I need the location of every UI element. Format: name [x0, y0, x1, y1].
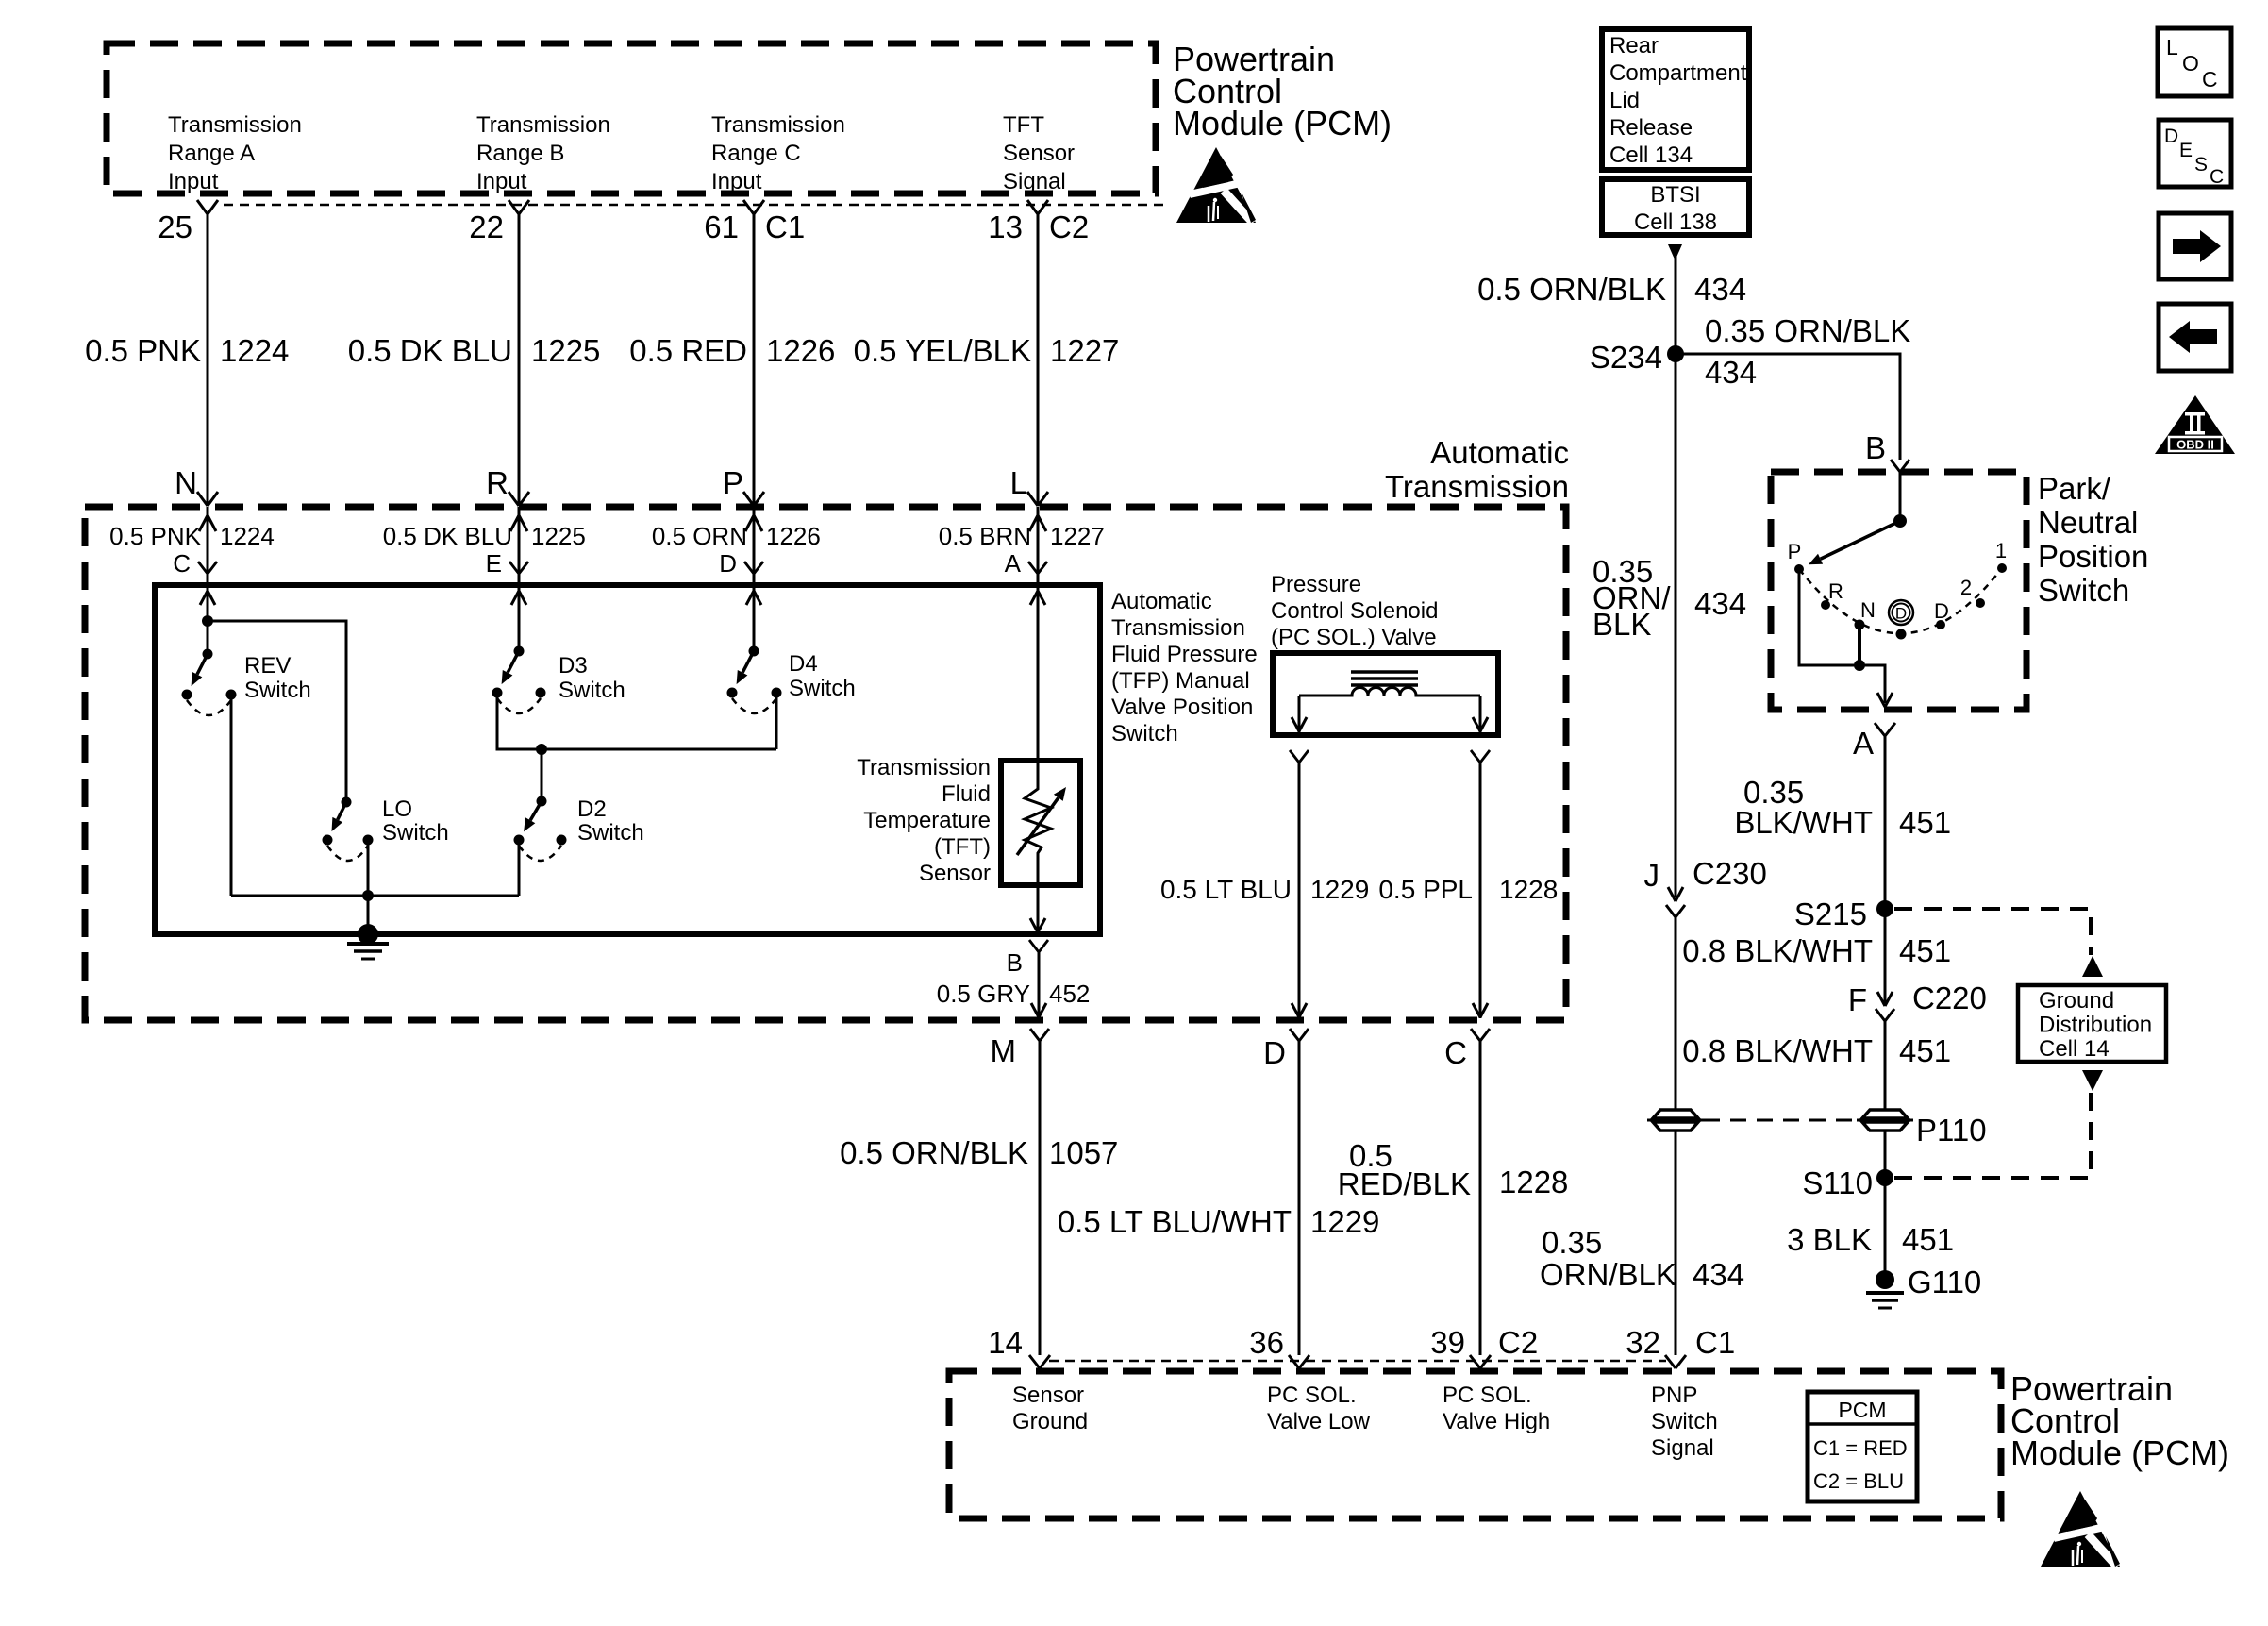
svg-text:14: 14 [988, 1325, 1023, 1360]
wire 434 0.35 ORN/BLK branch to PNP switch [1676, 354, 1900, 460]
svg-text:Ground: Ground [1012, 1409, 1088, 1434]
internal wire arrow at x=799 [746, 591, 754, 605]
svg-text:1229: 1229 [1310, 1204, 1379, 1239]
dashed link Ground Distribution to S110 [2082, 1070, 2103, 1091]
wire N contact down [1858, 625, 1861, 665]
svg-text:S215: S215 [1794, 897, 1867, 931]
svg-text:1226: 1226 [766, 522, 821, 550]
svg-text:1228: 1228 [1499, 875, 1558, 904]
wire 1224 0.5 PNK [207, 214, 209, 506]
wire 1227 0.5 YEL/BLK [1037, 214, 1040, 506]
wire to pin 32 [1675, 1131, 1677, 1355]
svg-text:G110: G110 [1908, 1265, 1981, 1299]
component BTSI box [1602, 179, 1749, 235]
svg-text:B: B [1007, 948, 1023, 977]
svg-text:O: O [2182, 51, 2199, 75]
svg-text:22: 22 [469, 210, 504, 244]
svg-text:Signal: Signal [1003, 169, 1066, 194]
svg-text:0.5 ORN/BLK: 0.5 ORN/BLK [1477, 272, 1666, 307]
svg-text:3 BLK: 3 BLK [1787, 1222, 1872, 1257]
svg-text:1229: 1229 [1310, 875, 1369, 904]
svg-text:452: 452 [1049, 980, 1090, 1008]
svg-text:434: 434 [1694, 586, 1746, 621]
TFT variable arrow [1017, 797, 1059, 855]
svg-text:(TFT): (TFT) [934, 834, 991, 860]
svg-text:D: D [2164, 126, 2178, 147]
wire D2 left contact down [518, 840, 521, 896]
icon arrow right box [2159, 213, 2231, 279]
svg-text:1057: 1057 [1049, 1135, 1118, 1170]
contact 1 [1997, 563, 2007, 573]
svg-text:0.8 BLK/WHT: 0.8 BLK/WHT [1682, 1033, 1873, 1068]
ground internal TFP switch [358, 924, 378, 945]
svg-text:A: A [1853, 726, 1874, 761]
internal wire arrow at x=550 [511, 591, 519, 605]
svg-text:1227: 1227 [1050, 522, 1105, 550]
svg-text:Switch: Switch [244, 678, 311, 703]
contact D [1936, 620, 1945, 629]
terminal M [1030, 1029, 1040, 1041]
svg-text:0.5 GRY: 0.5 GRY [937, 980, 1030, 1008]
wire 1057 0.5 ORN/BLK [1039, 1041, 1042, 1355]
wire 1228 0.5 RED/BLK [1479, 1041, 1482, 1355]
component TFT sensor box [1001, 761, 1080, 885]
wire E to D3 switch [518, 585, 521, 651]
svg-text:Range C: Range C [711, 141, 801, 166]
svg-text:C2: C2 [1049, 210, 1089, 244]
terminal C below transmission [1471, 1029, 1480, 1041]
wire entry arrow at x=550 [518, 507, 521, 585]
svg-text:P110: P110 [1916, 1113, 1987, 1148]
wire REV right contact down [230, 695, 233, 896]
svg-text:451: 451 [1899, 933, 1951, 968]
svg-text:Switch: Switch [577, 820, 644, 846]
node S110 [1876, 1169, 1893, 1186]
wire 1229 0.5 LT BLU [1298, 763, 1301, 1018]
svg-text:Signal: Signal [1651, 1435, 1714, 1461]
ESD sensitive device symbol bottom [2041, 1491, 2120, 1567]
svg-text:Automatic: Automatic [1430, 435, 1569, 470]
svg-text:Cell 14: Cell 14 [2039, 1036, 2110, 1062]
wire entry arrow at x=1100 [1037, 507, 1040, 585]
pin 61 connector C1 [743, 200, 754, 214]
svg-text:E: E [486, 549, 502, 578]
svg-text:D4: D4 [789, 651, 818, 677]
pin 39 connector C2 [1470, 1355, 1480, 1368]
pin 25 connector [197, 200, 208, 214]
wire LO right contact down [367, 840, 370, 934]
svg-text:Sensor: Sensor [1012, 1383, 1084, 1408]
svg-text:S: S [2194, 154, 2208, 176]
svg-text:2: 2 [1960, 576, 1972, 599]
svg-text:LO: LO [382, 796, 412, 822]
wire bottom bus to ground [231, 895, 519, 897]
svg-text:(TFP) Manual: (TFP) Manual [1111, 668, 1250, 694]
node S234 [1667, 345, 1684, 362]
svg-text:Fluid: Fluid [942, 781, 991, 807]
pin 36 connector [1289, 1355, 1299, 1368]
svg-text:F: F [1848, 982, 1867, 1017]
wire 434 0.5 ORN/BLK from BTSI [1675, 244, 1677, 354]
svg-text:0.5 PNK: 0.5 PNK [109, 522, 201, 550]
terminal A of PNP switch [1875, 723, 1885, 736]
svg-text:D3: D3 [559, 653, 588, 679]
wire 1225 0.5 DK BLU [518, 214, 521, 506]
svg-text:1224: 1224 [220, 522, 275, 550]
svg-text:C: C [2202, 67, 2218, 92]
svg-text:C1 = RED: C1 = RED [1813, 1436, 1908, 1460]
wire 452 0.5 GRY [1038, 952, 1041, 1018]
PCM connector face thin dashed line bottom [1049, 1360, 1666, 1363]
pin 14 connector [1029, 1355, 1040, 1368]
contact N [1855, 620, 1865, 630]
svg-text:C2 = BLU: C2 = BLU [1813, 1469, 1904, 1493]
wire 1226 0.5 RED [753, 214, 756, 506]
svg-text:1224: 1224 [220, 333, 289, 368]
svg-text:1: 1 [1995, 539, 2007, 562]
node D2 top junction [536, 744, 547, 755]
resistor TFT thermistor [1025, 766, 1051, 885]
switch D3 [514, 646, 525, 657]
svg-text:C1: C1 [765, 210, 805, 244]
node S215 [1876, 900, 1893, 917]
wire 1229 0.5 LT BLU/WHT [1298, 1041, 1301, 1355]
component TFP manual valve position switch box [155, 585, 1100, 934]
node PNP output junction [1854, 660, 1865, 671]
svg-text:Sensor: Sensor [1003, 141, 1075, 166]
svg-text:N: N [175, 465, 197, 500]
wire 1228 0.5 PPL [1479, 763, 1482, 1018]
terminal B of PNP switch [1891, 460, 1900, 472]
wire 451 0.8 BLK/WHT upper [1884, 909, 1887, 1006]
svg-text:C230: C230 [1693, 856, 1767, 891]
ground G110 [1876, 1270, 1894, 1289]
svg-text:Cell 134: Cell 134 [1609, 142, 1693, 168]
rotary switch pivot [1893, 514, 1907, 528]
icon arrow left box [2159, 304, 2231, 371]
svg-text:0.5 ORN: 0.5 ORN [652, 522, 747, 550]
svg-text:D2: D2 [577, 796, 607, 822]
svg-text:Neutral: Neutral [2038, 505, 2138, 540]
svg-text:Range B: Range B [476, 141, 564, 166]
svg-text:B: B [1865, 430, 1886, 465]
svg-text:Valve Position: Valve Position [1111, 695, 1253, 720]
wire D4 right contact down [775, 693, 778, 749]
connector C220 terminal F [1877, 992, 1885, 1006]
svg-text:Transmission: Transmission [1385, 469, 1569, 504]
svg-text:0.5 LT BLU: 0.5 LT BLU [1160, 875, 1292, 904]
svg-text:Transmission: Transmission [857, 755, 991, 780]
internal wire arrow at x=220 [200, 591, 208, 605]
pin 22 connector [509, 200, 519, 214]
terminal D below transmission [1290, 1029, 1299, 1041]
svg-text:L: L [1010, 465, 1027, 500]
svg-text:434: 434 [1694, 272, 1746, 307]
svg-text:0.5 ORN/BLK: 0.5 ORN/BLK [840, 1135, 1028, 1170]
svg-text:Range A: Range A [168, 141, 255, 166]
svg-text:Pressure: Pressure [1271, 572, 1361, 597]
svg-text:Module (PCM): Module (PCM) [2010, 1433, 2229, 1472]
svg-text:BLK: BLK [1593, 607, 1651, 642]
terminal PC SOL low [1290, 750, 1299, 763]
svg-text:451: 451 [1902, 1222, 1954, 1257]
component PC SOL valve box [1273, 653, 1498, 735]
rotary contact arc dashed [1799, 568, 2002, 633]
svg-text:0.35 ORN/BLK: 0.35 ORN/BLK [1705, 313, 1910, 348]
svg-text:0.5 RED: 0.5 RED [629, 333, 747, 368]
internal wire arrow at x=1100 [1030, 591, 1038, 605]
svg-text:J: J [1644, 858, 1660, 893]
wire A to TFT sensor [1037, 585, 1040, 766]
svg-text:REV: REV [244, 653, 291, 679]
svg-text:S234: S234 [1590, 340, 1662, 375]
svg-text:Transmission: Transmission [711, 112, 845, 138]
svg-text:0.5 DK BLU: 0.5 DK BLU [383, 522, 512, 550]
svg-text:PNP: PNP [1651, 1383, 1697, 1408]
rotary switch arm to P [1821, 521, 1900, 559]
wire D3 left contact to D2 [497, 693, 776, 749]
svg-text:0.5 LT BLU/WHT: 0.5 LT BLU/WHT [1058, 1204, 1292, 1239]
wire 451 3 BLK [1884, 1178, 1887, 1272]
svg-text:Distribution: Distribution [2039, 1013, 2152, 1038]
pin 32 connector C1 [1665, 1355, 1676, 1368]
svg-text:0.5 PPL: 0.5 PPL [1378, 875, 1473, 904]
svg-text:Temperature: Temperature [863, 808, 991, 833]
svg-text:Sensor: Sensor [919, 861, 991, 886]
svg-text:Input: Input [476, 169, 527, 194]
svg-text:1226: 1226 [766, 333, 835, 368]
svg-text:0.5 DK BLU: 0.5 DK BLU [348, 333, 512, 368]
svg-text:Switch: Switch [1651, 1409, 1718, 1434]
wire 451 to S110 [1884, 1131, 1887, 1178]
svg-text:P: P [1788, 540, 1802, 563]
component Park/Neutral Position Switch dashed box [1771, 472, 2026, 710]
svg-text:451: 451 [1899, 805, 1951, 840]
svg-text:Fluid Pressure: Fluid Pressure [1111, 642, 1258, 667]
svg-text:25: 25 [158, 210, 192, 244]
svg-text:D: D [1895, 605, 1907, 623]
module PCM top dashed box [107, 43, 1156, 193]
svg-text:C1: C1 [1695, 1325, 1735, 1360]
svg-text:C220: C220 [1912, 981, 1987, 1015]
inductor PC SOL coil [1299, 688, 1480, 696]
svg-text:R: R [486, 465, 509, 500]
svg-text:0.8 BLK/WHT: 0.8 BLK/WHT [1682, 933, 1873, 968]
module PCM bottom dashed box [949, 1371, 2001, 1518]
svg-text:13: 13 [988, 210, 1023, 244]
svg-text:D: D [1263, 1035, 1286, 1070]
svg-text:Control Solenoid: Control Solenoid [1271, 598, 1438, 624]
svg-text:BTSI: BTSI [1650, 182, 1700, 208]
icon OBD II triangle [2155, 395, 2235, 454]
terminal B below TFP box [1029, 940, 1039, 952]
svg-text:Lid: Lid [1609, 88, 1640, 113]
arrow from BTSI [1668, 244, 1682, 260]
svg-text:Compartment: Compartment [1609, 60, 1747, 86]
svg-text:Release: Release [1609, 115, 1693, 141]
node ground bus junction [362, 890, 374, 901]
svg-text:451: 451 [1899, 1033, 1951, 1068]
svg-text:C: C [2210, 166, 2224, 188]
svg-text:Switch: Switch [2038, 573, 2129, 608]
svg-text:R: R [1828, 579, 1843, 603]
svg-text:RED/BLK: RED/BLK [1338, 1166, 1471, 1201]
svg-text:Input: Input [711, 169, 762, 194]
icon LOC box [2158, 28, 2231, 96]
node REV branch junction [202, 615, 213, 627]
svg-text:Valve Low: Valve Low [1267, 1409, 1371, 1434]
inline connector P110 right half [1862, 1110, 1908, 1118]
PCM connector legend box [1808, 1392, 1917, 1501]
wire branch to LO switch [208, 621, 346, 802]
svg-text:D: D [719, 549, 737, 578]
wire entry arrow at x=799 [753, 507, 756, 585]
svg-text:Transmission: Transmission [476, 112, 610, 138]
svg-text:36: 36 [1249, 1325, 1284, 1360]
svg-text:N: N [1860, 598, 1876, 622]
contact D circled [1896, 629, 1907, 640]
svg-text:Automatic: Automatic [1111, 589, 1212, 614]
wire D2 stem [541, 749, 543, 801]
svg-text:Switch: Switch [382, 820, 449, 846]
contact R [1821, 600, 1830, 610]
pin 13 connector C2 [1027, 200, 1038, 214]
svg-text:39: 39 [1430, 1325, 1465, 1360]
svg-text:ORN/BLK: ORN/BLK [1540, 1257, 1676, 1292]
svg-text:Switch: Switch [1111, 721, 1178, 746]
svg-text:1225: 1225 [531, 333, 600, 368]
svg-text:434: 434 [1693, 1257, 1744, 1292]
wire PC SOL low lead [1298, 696, 1301, 733]
svg-text:PCM: PCM [1838, 1398, 1886, 1422]
wire 451 0.8 BLK/WHT lower [1884, 1021, 1887, 1110]
wire 434 0.35 ORN/BLK long run [1675, 354, 1677, 897]
svg-text:TFT: TFT [1003, 112, 1044, 138]
dashed link between P110 halves [1704, 1119, 1857, 1122]
svg-text:Rear: Rear [1609, 33, 1659, 59]
svg-text:1227: 1227 [1050, 333, 1119, 368]
wire 451 0.35 BLK/WHT [1884, 736, 1887, 909]
svg-text:Switch: Switch [789, 676, 856, 701]
svg-text:Transmission: Transmission [1111, 615, 1245, 641]
svg-text:Valve High: Valve High [1443, 1409, 1550, 1434]
svg-text:Input: Input [168, 169, 219, 194]
wire P to D4 switch [753, 585, 756, 651]
svg-text:E: E [2179, 140, 2193, 161]
PCM connector face thin dashed line top [224, 204, 1165, 207]
svg-text:C: C [1444, 1035, 1467, 1070]
wire TFT sensor down [1037, 885, 1040, 934]
switch LO [342, 797, 352, 808]
dashed link S215 to Ground Distribution [1894, 909, 2091, 955]
wire P contact to output [1799, 569, 1885, 703]
inline connector P110 left half [1653, 1110, 1698, 1118]
switch D4 [749, 646, 759, 657]
svg-text:(PC SOL.) Valve: (PC SOL.) Valve [1271, 625, 1437, 650]
solenoid core lines [1351, 670, 1418, 674]
svg-text:Module (PCM): Module (PCM) [1173, 104, 1392, 142]
svg-text:PC SOL.: PC SOL. [1267, 1383, 1357, 1408]
svg-text:Position: Position [2038, 539, 2148, 574]
wire B to rotary pivot [1899, 472, 1902, 521]
svg-text:0.35: 0.35 [1542, 1225, 1602, 1260]
svg-text:61: 61 [704, 210, 739, 244]
icon DESC box [2159, 120, 2231, 187]
svg-text:Cell 138: Cell 138 [1634, 210, 1717, 235]
ESD sensitive device symbol top [1176, 147, 1256, 223]
component Ground Distribution Cell 14 box [2018, 985, 2166, 1062]
svg-text:PC SOL.: PC SOL. [1443, 1383, 1532, 1408]
svg-text:0.5 YEL/BLK: 0.5 YEL/BLK [854, 333, 1031, 368]
module Automatic Transmission dashed box [85, 507, 1566, 1020]
terminal PC SOL high [1471, 750, 1480, 763]
svg-text:M: M [991, 1033, 1017, 1068]
svg-text:C: C [173, 549, 191, 578]
svg-text:D: D [1934, 599, 1949, 623]
switch D2 [537, 796, 547, 807]
contact 2 [1976, 598, 1985, 608]
connector C230 terminal J [1668, 887, 1676, 901]
component Rear Compartment Lid Release box [1602, 29, 1749, 170]
svg-text:1228: 1228 [1499, 1165, 1568, 1199]
svg-text:BLK/WHT: BLK/WHT [1734, 805, 1873, 840]
svg-text:OBD II: OBD II [2176, 438, 2214, 452]
contact P [1794, 564, 1804, 574]
svg-text:Transmission: Transmission [168, 112, 302, 138]
svg-text:32: 32 [1626, 1325, 1660, 1360]
svg-text:Switch: Switch [559, 678, 625, 703]
wire C to REV switch [207, 585, 209, 654]
svg-text:A: A [1005, 549, 1022, 578]
svg-text:C2: C2 [1498, 1325, 1538, 1360]
switch REV [203, 649, 213, 660]
svg-text:0.5 BRN: 0.5 BRN [939, 522, 1031, 550]
wire 434 0.35 ORN/BLK below C230 [1675, 917, 1677, 1110]
svg-text:S110: S110 [1802, 1165, 1873, 1200]
svg-text:L: L [2166, 35, 2178, 59]
svg-text:P: P [723, 465, 743, 500]
svg-text:434: 434 [1705, 355, 1757, 390]
svg-text:Ground: Ground [2039, 988, 2114, 1014]
svg-text:Park/: Park/ [2038, 471, 2111, 506]
svg-text:0.5 PNK: 0.5 PNK [85, 333, 201, 368]
wire PC SOL high lead [1479, 696, 1482, 733]
wire entry arrow at x=220 [207, 507, 209, 585]
svg-text:1225: 1225 [531, 522, 586, 550]
